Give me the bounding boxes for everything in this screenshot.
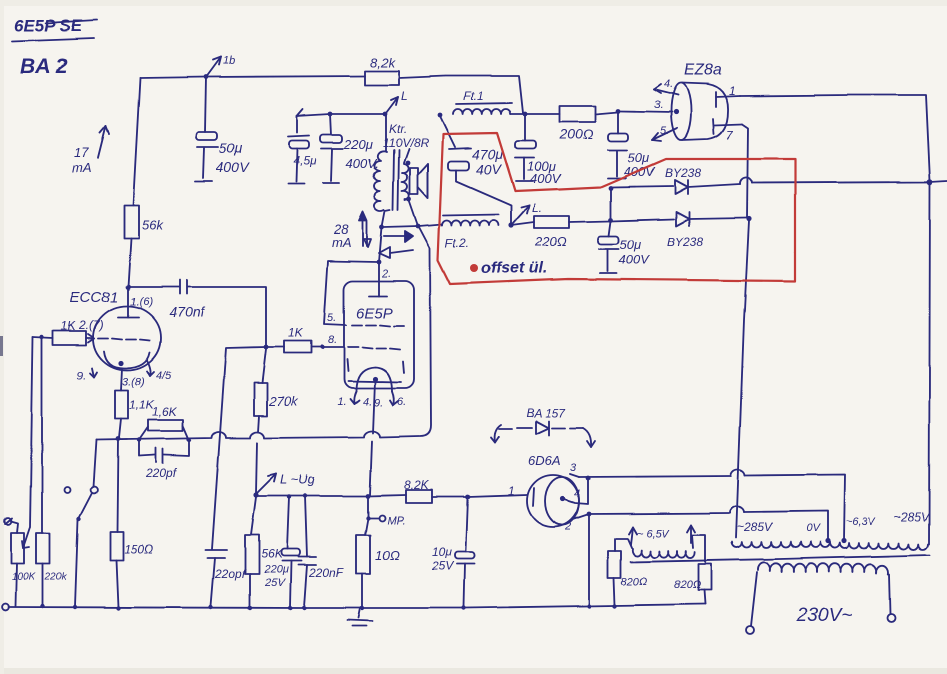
svg-text:4: 4 bbox=[574, 488, 580, 500]
svg-text:L.: L. bbox=[532, 201, 542, 215]
svg-text:50μ: 50μ bbox=[219, 140, 243, 156]
6D6A pin1 bbox=[508, 484, 534, 506]
wire coupling to 22opf diagonal bbox=[212, 347, 266, 549]
node 10u tap bbox=[466, 495, 471, 500]
node 0V tap bbox=[806, 523, 831, 544]
switch contact open bbox=[64, 487, 70, 493]
resistor 56k bbox=[124, 205, 164, 238]
transformer Ktr 110V/8R label bbox=[383, 122, 429, 150]
capacitor 470nF bbox=[128, 280, 266, 345]
ECC81 anode bbox=[118, 287, 153, 317]
wire EZ8a pin1 to right edge bbox=[740, 95, 930, 181]
svg-text:110V/8R: 110V/8R bbox=[383, 136, 429, 150]
svg-text:6D6A: 6D6A bbox=[528, 453, 561, 468]
svg-text:mA: mA bbox=[332, 235, 352, 250]
svg-text:220k: 220k bbox=[44, 572, 68, 583]
capacitor 220u 25V bbox=[263, 497, 301, 607]
resistor 8,2k (top) bbox=[365, 55, 399, 85]
svg-text:1: 1 bbox=[729, 84, 736, 98]
resistor 56K bbox=[245, 497, 283, 607]
wire HV right drop (rect output to 285V tap) bbox=[929, 184, 930, 544]
node pin8 wire dot bbox=[320, 345, 324, 349]
tube EZ8a bbox=[671, 62, 728, 140]
capacitor 50u 400V (lower) bbox=[598, 221, 651, 273]
6E5P g1 dashes bbox=[348, 347, 400, 349]
svg-text:17: 17 bbox=[74, 145, 89, 160]
arrow direction right (filled) bbox=[384, 231, 413, 242]
svg-text:6.: 6. bbox=[397, 396, 406, 408]
wire diode rows link bbox=[610, 187, 612, 220]
ECC81 pin labels 1K 2.(7) bbox=[61, 318, 104, 333]
capacitor 220nF bbox=[298, 496, 344, 607]
wire HV left drop (pin7 to 285V tap) bbox=[736, 221, 749, 538]
wire 6E5P screen loop bbox=[324, 261, 377, 325]
wire -Ug rail bbox=[256, 495, 527, 497]
EZ8a pin5 arrow bbox=[652, 125, 677, 141]
red note offset bbox=[470, 260, 547, 277]
wire 6D6A pin3 row bbox=[579, 469, 845, 540]
ECC81 cathode bbox=[104, 351, 150, 368]
node speaker bottom bbox=[407, 197, 412, 202]
svg-text:0V: 0V bbox=[806, 523, 821, 535]
capacitor 22opf (grid) bbox=[206, 550, 247, 606]
svg-text:200Ω: 200Ω bbox=[558, 126, 593, 142]
svg-text:3: 3 bbox=[570, 462, 577, 474]
svg-text:4.: 4. bbox=[363, 396, 372, 408]
wire primary bottom to 6E5P pin2 bbox=[379, 227, 382, 262]
heater winding 6,5V bbox=[629, 525, 695, 558]
svg-text:1.: 1. bbox=[337, 396, 346, 408]
EZ8a pin1 plate bbox=[716, 84, 740, 107]
svg-text:8,2k: 8,2k bbox=[370, 55, 396, 70]
svg-text:~ 6,5V: ~ 6,5V bbox=[637, 528, 671, 540]
6E5P inner side dashes bbox=[347, 359, 404, 373]
wire to pot wiper bbox=[30, 337, 33, 527]
resistor 820R (left) bbox=[608, 539, 648, 605]
wire screen rail y115 bbox=[297, 109, 385, 116]
svg-text:BA 157: BA 157 bbox=[526, 406, 566, 420]
6E5P cathode arch bbox=[356, 367, 392, 391]
svg-text:Ktr.: Ktr. bbox=[389, 122, 407, 136]
svg-text:820Ω: 820Ω bbox=[674, 579, 701, 591]
diode BA157 bbox=[491, 406, 595, 447]
node speaker top bbox=[406, 161, 411, 166]
svg-text:470μ: 470μ bbox=[472, 146, 503, 162]
transformer Ktr primary winding bbox=[374, 114, 390, 227]
resistor 820R (right) bbox=[674, 535, 711, 604]
wire left B+ drop bbox=[133, 78, 140, 205]
resistor 220k bbox=[36, 337, 68, 606]
resistor 220R bbox=[511, 216, 611, 249]
wire 56k to ECC81 anode bbox=[128, 238, 131, 287]
6E5P pin1 arrow bbox=[337, 391, 359, 408]
transformer Ktr secondary winding bbox=[402, 149, 409, 200]
resistor 10R bbox=[356, 497, 399, 607]
paper edge mark left bbox=[0, 336, 3, 356]
6D6A pin3 bbox=[570, 462, 579, 477]
wire pot to ground rail bbox=[16, 564, 17, 606]
6E5P base line bbox=[348, 381, 401, 382]
svg-text:2: 2 bbox=[564, 521, 571, 533]
resistor 1K (grid) bbox=[33, 331, 86, 345]
6E5P pin6 arrow bbox=[390, 391, 406, 408]
svg-text:1,6K: 1,6K bbox=[152, 405, 178, 419]
6D6A pin4 node bbox=[560, 478, 588, 504]
svg-text:4,5μ: 4,5μ bbox=[293, 154, 317, 168]
6E5P pin5 label bbox=[327, 312, 336, 324]
svg-text:8,2K: 8,2K bbox=[404, 478, 430, 492]
wire 8,2k to HT node bbox=[399, 76, 523, 113]
svg-text:400V: 400V bbox=[619, 252, 651, 267]
resistor 1,6K bbox=[139, 405, 189, 440]
svg-text:1: 1 bbox=[508, 484, 515, 498]
svg-text:~6,3V: ~6,3V bbox=[846, 516, 877, 528]
wire 6E5P cathode drop bbox=[370, 381, 375, 495]
node 50u junction (EZ8a pin3 rail) bbox=[616, 109, 672, 114]
svg-text:BY238: BY238 bbox=[667, 235, 703, 249]
node Ft.2 left junction bbox=[380, 225, 385, 230]
wire pin2 to ground rail bbox=[588, 514, 590, 605]
wire speaker bottom to Ft.2 node bbox=[409, 200, 418, 226]
svg-text:220μ: 220μ bbox=[263, 564, 288, 576]
svg-text:220nF: 220nF bbox=[308, 566, 344, 580]
svg-text:BA 2: BA 2 bbox=[20, 55, 67, 78]
node rectifier output bbox=[927, 179, 933, 185]
arrows 28 mA bbox=[332, 212, 371, 250]
node row2 left bbox=[609, 218, 614, 223]
node Ft.1 left bbox=[438, 113, 443, 118]
red region outline bbox=[438, 133, 795, 284]
svg-text:1b: 1b bbox=[223, 55, 235, 67]
wire ground rail bottom bbox=[3, 604, 705, 611]
title BA 2 bbox=[20, 55, 67, 78]
node coupling junction bbox=[264, 345, 269, 350]
node cathode sense tap bbox=[366, 494, 371, 499]
node -Ug junction bbox=[253, 472, 315, 498]
capacitor 4,5u bbox=[288, 116, 317, 184]
ECC81 pin45 label bbox=[147, 360, 172, 382]
svg-text:1.(6): 1.(6) bbox=[130, 296, 153, 308]
node pin2 junction bbox=[587, 512, 592, 517]
svg-text:56k: 56k bbox=[142, 217, 164, 232]
tube 6E5P bbox=[344, 281, 414, 388]
arrow 17 mA bbox=[72, 126, 109, 175]
svg-text:ECC81: ECC81 bbox=[70, 289, 118, 306]
capacitor 470u 40V bbox=[440, 116, 511, 223]
transformer Ktr core bbox=[393, 150, 399, 210]
inductor Ft.1 bbox=[453, 89, 525, 114]
svg-text:4.: 4. bbox=[664, 78, 673, 90]
node cathode rail left bbox=[116, 437, 121, 442]
svg-text:25V: 25V bbox=[264, 577, 286, 589]
inductor Ft.2 bbox=[419, 214, 498, 250]
node 6,3V tap bbox=[841, 516, 876, 544]
node transformer top junction bbox=[383, 89, 408, 116]
svg-text:220pf: 220pf bbox=[145, 466, 178, 480]
capacitor 220pf bbox=[139, 440, 189, 480]
svg-text:6E5P SE: 6E5P SE bbox=[14, 16, 83, 35]
node MP tap bbox=[366, 515, 405, 527]
node 220nF tap bbox=[303, 494, 307, 498]
node row1 left bbox=[609, 186, 614, 191]
svg-text:10μ: 10μ bbox=[432, 545, 452, 559]
6E5P g2 dashes bbox=[352, 325, 404, 326]
node ECC81 anode junction bbox=[126, 285, 131, 290]
svg-text:6E5P: 6E5P bbox=[356, 305, 393, 322]
svg-text:1K: 1K bbox=[288, 326, 304, 340]
capacitor 50u 400V (EZ8a) bbox=[608, 111, 656, 179]
resistor 1,1K bbox=[115, 368, 155, 438]
6E5P pin2 label bbox=[381, 268, 391, 280]
resistor 150R bbox=[110, 440, 153, 607]
svg-text:EZ8a: EZ8a bbox=[684, 62, 722, 79]
ground bbox=[347, 608, 372, 626]
svg-text:9.: 9. bbox=[77, 370, 86, 382]
svg-text:Ft.2.: Ft.2. bbox=[445, 236, 469, 250]
svg-text:25V: 25V bbox=[431, 559, 454, 573]
6E5P pin4 pin9 labels bbox=[363, 396, 383, 409]
potentiometer 100K bbox=[11, 527, 37, 583]
node pin3-4 junction bbox=[586, 476, 591, 481]
node row2 right bbox=[746, 216, 751, 221]
label 285V right bbox=[894, 510, 930, 524]
svg-text:50μ: 50μ bbox=[620, 237, 642, 252]
wire diode row1 bbox=[611, 177, 947, 187]
tube ECC81 bbox=[70, 289, 161, 370]
svg-text:270k: 270k bbox=[268, 394, 299, 409]
ECC81 grid arrow bbox=[86, 334, 94, 342]
svg-text:4/5: 4/5 bbox=[156, 370, 172, 382]
wire B+ top rail bbox=[140, 76, 365, 78]
diode BY238 (lower) bbox=[667, 212, 703, 249]
svg-text:5.: 5. bbox=[327, 312, 336, 324]
svg-text:L ~Ug: L ~Ug bbox=[280, 472, 316, 487]
svg-text:56K: 56K bbox=[261, 547, 283, 561]
svg-text:Ft.1: Ft.1 bbox=[463, 89, 484, 103]
svg-text:9.: 9. bbox=[374, 397, 383, 409]
svg-text:3.: 3. bbox=[654, 99, 663, 111]
svg-text:150Ω: 150Ω bbox=[124, 542, 153, 556]
svg-text:220Ω: 220Ω bbox=[534, 234, 567, 249]
svg-text:230V~: 230V~ bbox=[796, 605, 852, 626]
ECC81 pin9 label bbox=[77, 368, 97, 382]
svg-text:mA: mA bbox=[72, 160, 92, 175]
HV winding bbox=[732, 542, 928, 550]
wire cathode rail bbox=[96, 431, 419, 440]
transformer core line bbox=[631, 555, 930, 562]
resistor 1K (6E5P grid) bbox=[266, 326, 344, 353]
svg-text:1,1K: 1,1K bbox=[129, 398, 155, 412]
title 6E5P SE bbox=[12, 16, 97, 41]
ECC81 pin3 label bbox=[122, 376, 145, 388]
wire Ft.2 row bbox=[384, 226, 418, 227]
node L junction bbox=[508, 201, 542, 228]
arrow direction left (open) bbox=[379, 247, 413, 258]
node 6E5P pin2 junction bbox=[377, 260, 382, 265]
svg-text:offset ül.: offset ül. bbox=[481, 260, 547, 277]
svg-text:400V: 400V bbox=[530, 171, 562, 186]
resistor 200R bbox=[525, 106, 618, 142]
resistor 270k bbox=[254, 349, 299, 493]
svg-text:400V.: 400V. bbox=[346, 156, 379, 171]
node 220u tap bbox=[287, 495, 291, 499]
speaker bbox=[410, 164, 428, 198]
wire diode row2 bbox=[611, 218, 747, 221]
svg-text:820Ω: 820Ω bbox=[621, 576, 648, 588]
EZ8a pin7 plate bbox=[713, 119, 742, 142]
node speaker/Ft2 junction bbox=[416, 224, 421, 229]
node 220u junction bbox=[328, 112, 333, 117]
diode BY238 (upper) bbox=[665, 166, 701, 194]
svg-text:40V: 40V bbox=[476, 161, 503, 177]
node bracket left bbox=[137, 438, 141, 442]
svg-text:50μ: 50μ bbox=[628, 150, 650, 165]
svg-text:BY238: BY238 bbox=[665, 166, 701, 180]
svg-text:L: L bbox=[401, 89, 408, 103]
node rail dots bbox=[41, 604, 617, 610]
svg-text:220μ: 220μ bbox=[343, 137, 373, 152]
node B+ junction bbox=[204, 55, 236, 79]
svg-text:2.(7): 2.(7) bbox=[78, 318, 104, 332]
svg-text:22opf: 22opf bbox=[214, 567, 247, 581]
EZ8a pin4 arrow bbox=[654, 78, 678, 95]
svg-text:2.: 2. bbox=[381, 268, 391, 280]
svg-text:~285V: ~285V bbox=[894, 510, 930, 524]
6E5P anode bbox=[369, 264, 387, 296]
node grid leak junction bbox=[40, 335, 44, 339]
label 285V left bbox=[737, 520, 773, 534]
svg-text:470nf: 470nf bbox=[169, 304, 206, 320]
svg-text:MP.: MP. bbox=[387, 515, 405, 527]
primary winding 230V bbox=[746, 562, 895, 634]
svg-text:~285V: ~285V bbox=[737, 520, 773, 534]
node HT junction bbox=[523, 112, 528, 117]
tube 6D6A bbox=[527, 453, 579, 527]
capacitor 100u 400V bbox=[515, 114, 562, 186]
6E5P pin8 label bbox=[328, 334, 337, 346]
node bracket right bbox=[187, 438, 191, 442]
svg-text:400V: 400V bbox=[216, 159, 250, 175]
EZ8a pin3 terminal bbox=[654, 99, 679, 115]
ECC81 grid dashes bbox=[98, 338, 150, 340]
wire feedback drop to cathode rail bbox=[419, 227, 431, 436]
input terminal bbox=[5, 518, 18, 533]
switch bbox=[75, 440, 97, 606]
svg-text:8.: 8. bbox=[328, 334, 337, 346]
6D6A pin2 bbox=[564, 514, 589, 533]
wire EZ8a pin7 drop bbox=[742, 124, 748, 218]
wire 6D6A pin2 row bbox=[589, 506, 828, 540]
capacitor 50u 400V (left) bbox=[195, 77, 250, 181]
svg-text:3.(8): 3.(8) bbox=[122, 376, 145, 388]
svg-text:10Ω: 10Ω bbox=[375, 548, 399, 563]
resistor 8,2K (bias) bbox=[404, 478, 432, 503]
capacitor 220u 400V bbox=[320, 114, 379, 183]
capacitor 10u 25V bbox=[431, 497, 475, 607]
